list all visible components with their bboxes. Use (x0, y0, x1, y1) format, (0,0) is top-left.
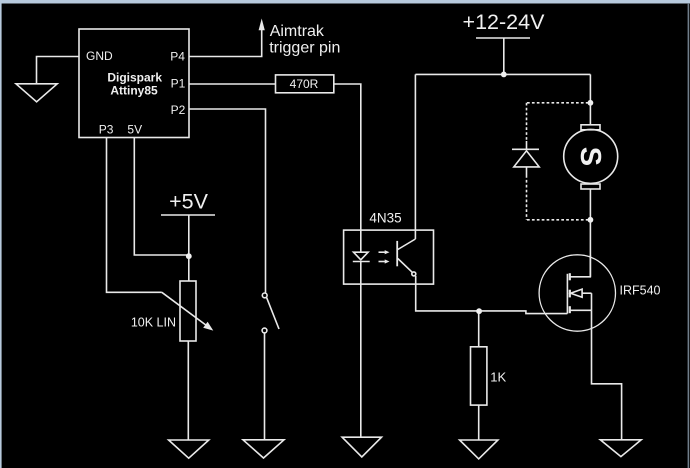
svg-text:+5V: +5V (169, 189, 209, 213)
svg-text:trigger pin: trigger pin (269, 39, 340, 56)
resistor 470R body (276, 75, 334, 93)
svg-text:P4: P4 (170, 50, 185, 64)
power +5V bar (161, 214, 215, 216)
transistor Q1 body diode arrow (571, 289, 583, 297)
resistor 1K body (471, 347, 487, 405)
ground symbol G1 (16, 84, 57, 102)
svg-text:S: S (574, 147, 606, 166)
motor M1 bottom brush (581, 184, 600, 189)
transistor Q1 IRF540 body (539, 255, 615, 331)
transistor Q1 source stub (570, 309, 592, 311)
ground symbol G4 (342, 437, 381, 457)
wire rail to motor top (589, 74, 591, 102)
svg-text:Attiny85: Attiny85 (110, 84, 158, 98)
wire +12-24V bar to rail (503, 38, 505, 74)
IC U1 Digispark Attiny85 body (79, 29, 189, 138)
motor M1 body (564, 129, 618, 183)
optocoupler U2 phototransistor (397, 230, 416, 284)
wire P2 to switch (189, 109, 266, 293)
node junction +12V rail (501, 72, 507, 78)
svg-text:5V: 5V (127, 122, 142, 136)
wire junction to motor brush (589, 103, 591, 125)
switch S1 lever (267, 298, 279, 329)
wire GND pin to ground (37, 57, 80, 85)
wire junction to MOSFET gate (479, 311, 567, 314)
wire rail to optocoupler collector (414, 74, 416, 230)
wire emitter to gate junction (416, 284, 479, 311)
svg-text:470R: 470R (290, 77, 319, 91)
node junction +5V/pot (186, 253, 192, 259)
transistor Q1 channel bars (569, 273, 571, 313)
potentiometer RV1 body (180, 281, 196, 341)
svg-text:Aimtrak: Aimtrak (270, 23, 325, 40)
node junction gate/1K (476, 308, 482, 314)
node junction motor top (588, 100, 594, 106)
wire 470R to optocoupler LED anode (334, 84, 361, 230)
wire P4 to Aimtrak trigger pin arrow (189, 30, 262, 57)
node Aimtrak trigger pin arrowhead (259, 19, 265, 31)
potentiometer RV1 wiper arrow (162, 292, 207, 325)
wire optocoupler LED cathode to ground (360, 284, 362, 437)
wire junction to potentiometer top (188, 258, 190, 281)
ground symbol G2 (169, 440, 209, 458)
wire switch to ground (264, 333, 266, 440)
optocoupler U2 light arrows (379, 250, 390, 264)
wire P3 to potentiometer wiper (107, 138, 162, 293)
wire motor junction to MOSFET drain (589, 220, 591, 277)
svg-text:P2: P2 (171, 103, 186, 117)
optocoupler U2 LED (353, 230, 370, 284)
svg-text:10K LIN: 10K LIN (131, 316, 176, 330)
wire dashed snubber box (527, 103, 591, 220)
svg-text:P3: P3 (99, 122, 114, 136)
wire +12V rail (415, 73, 590, 75)
motor M1 top brush (581, 125, 600, 130)
svg-text:+12-24V: +12-24V (463, 10, 546, 34)
wire MOSFET source to ground (592, 310, 622, 439)
svg-text:IRF540: IRF540 (620, 283, 661, 297)
wire P1 to resistor 470R (189, 83, 276, 85)
ground symbol G6 (600, 440, 641, 457)
ground symbol G5 (460, 440, 498, 459)
svg-text:P1: P1 (171, 76, 186, 90)
switch S1 top contact (262, 293, 267, 298)
svg-text:GND: GND (86, 49, 113, 63)
wire potentiometer to ground (187, 341, 189, 440)
wire 1K to ground (478, 405, 480, 440)
optocoupler U2 4N35 body (344, 230, 434, 284)
transistor Q1 drain stub (570, 255, 591, 277)
svg-text:4N35: 4N35 (369, 210, 401, 225)
wire motor bottom to junction (589, 189, 591, 220)
wire junction to resistor 1K (478, 313, 480, 347)
node junction motor bottom (588, 217, 594, 223)
svg-text:1K: 1K (490, 369, 506, 384)
node label Aimtrak trigger pin (269, 23, 340, 56)
power +12-24V bar (476, 37, 530, 39)
ground symbol G3 (243, 440, 284, 458)
diode D1 flyback (512, 141, 539, 175)
wire 5V pin to +5V junction (134, 138, 189, 256)
transistor Q1 gate (566, 274, 568, 314)
switch S1 bottom contact (262, 328, 267, 333)
wire +5V bar to junction (188, 215, 190, 256)
